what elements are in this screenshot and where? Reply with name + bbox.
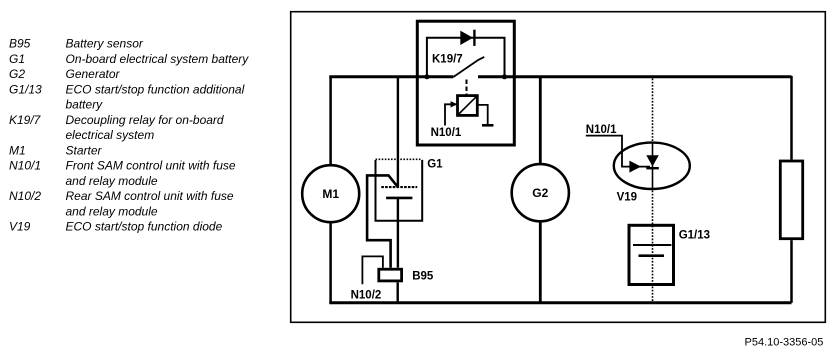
svg-text:V19: V19 bbox=[9, 220, 31, 234]
svg-text:and relay module: and relay module bbox=[66, 174, 158, 188]
svg-text:G2: G2 bbox=[9, 67, 25, 81]
svg-text:M1: M1 bbox=[322, 187, 339, 201]
svg-text:Starter: Starter bbox=[66, 143, 103, 157]
svg-text:N10/1: N10/1 bbox=[9, 159, 41, 173]
svg-text:G2: G2 bbox=[532, 186, 548, 200]
svg-text:Generator: Generator bbox=[66, 67, 121, 81]
svg-text:N10/1: N10/1 bbox=[431, 127, 462, 139]
svg-text:N10/2: N10/2 bbox=[9, 189, 41, 203]
svg-text:Decoupling relay for on-board: Decoupling relay for on-board bbox=[66, 113, 224, 127]
svg-text:and relay module: and relay module bbox=[66, 204, 158, 218]
svg-text:G1: G1 bbox=[427, 159, 443, 171]
svg-text:G1/13: G1/13 bbox=[9, 82, 42, 96]
svg-text:V19: V19 bbox=[617, 191, 637, 203]
svg-text:B95: B95 bbox=[412, 271, 434, 283]
svg-text:Rear SAM control unit with fus: Rear SAM control unit with fuse bbox=[66, 189, 234, 203]
svg-text:battery: battery bbox=[66, 98, 104, 112]
svg-text:N10/1: N10/1 bbox=[586, 124, 617, 136]
svg-text:B95: B95 bbox=[9, 37, 31, 51]
svg-text:M1: M1 bbox=[9, 143, 26, 157]
svg-text:ECO start/stop function diode: ECO start/stop function diode bbox=[66, 220, 223, 234]
svg-text:On-board electrical system bat: On-board electrical system battery bbox=[66, 52, 250, 66]
svg-text:Battery sensor: Battery sensor bbox=[66, 37, 144, 51]
svg-text:ECO start/stop function additi: ECO start/stop function additional bbox=[66, 82, 245, 96]
svg-text:N10/2: N10/2 bbox=[351, 290, 382, 302]
svg-text:G1: G1 bbox=[9, 52, 25, 66]
svg-text:G1/13: G1/13 bbox=[679, 230, 710, 242]
svg-text:electrical system: electrical system bbox=[66, 128, 155, 142]
svg-text:K19/7: K19/7 bbox=[9, 113, 42, 127]
svg-text:P54.10-3356-05: P54.10-3356-05 bbox=[745, 337, 824, 349]
svg-text:K19/7: K19/7 bbox=[432, 54, 463, 66]
svg-text:Front SAM control unit with fu: Front SAM control unit with fuse bbox=[66, 159, 236, 173]
